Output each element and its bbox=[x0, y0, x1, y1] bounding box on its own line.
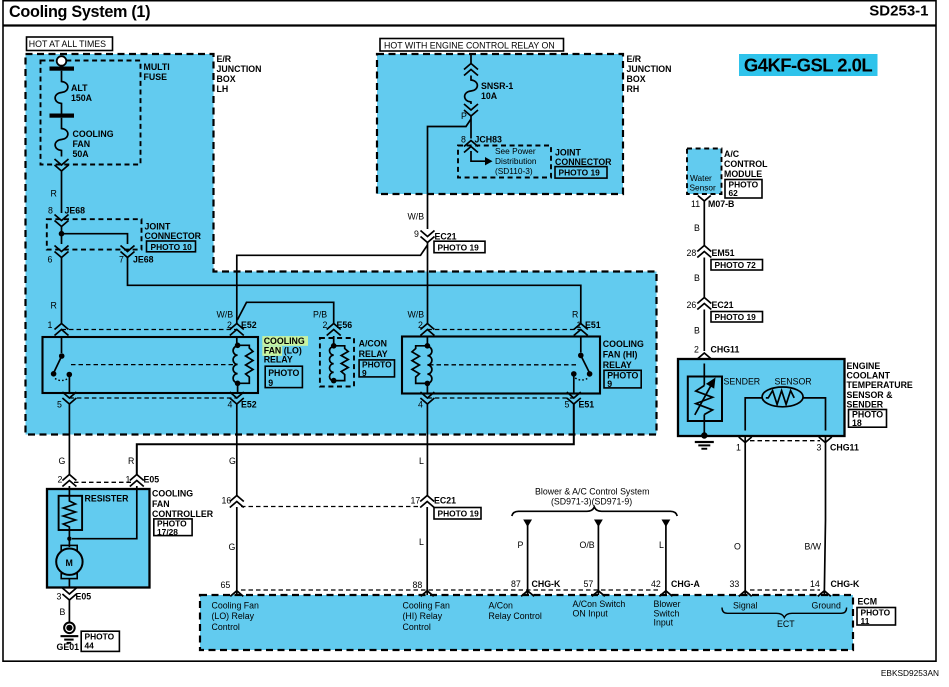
connector row dashed 33-14 bbox=[750, 589, 820, 591]
svg-text:COOLING: COOLING bbox=[73, 129, 114, 139]
svg-text:R: R bbox=[51, 189, 57, 199]
svg-text:BOX: BOX bbox=[627, 74, 646, 84]
LO relay armature link dashed bbox=[71, 364, 236, 366]
svg-text:11: 11 bbox=[861, 616, 870, 626]
svg-text:Relay Control: Relay Control bbox=[489, 611, 542, 621]
svg-text:(SD971-3)(SD971-9): (SD971-3)(SD971-9) bbox=[551, 497, 632, 507]
svg-text:8: 8 bbox=[461, 135, 466, 145]
svg-text:PHOTO 19: PHOTO 19 bbox=[438, 509, 480, 519]
svg-text:Cooling Fan: Cooling Fan bbox=[212, 601, 260, 611]
svg-text:33: 33 bbox=[730, 579, 740, 589]
wire B bbox=[703, 258, 705, 298]
svg-text:(HI) Relay: (HI) Relay bbox=[403, 611, 443, 621]
LO relay coil bbox=[233, 336, 240, 394]
svg-text:JCH83: JCH83 bbox=[475, 135, 502, 145]
wire P/B branch to A/CON relay bbox=[237, 302, 333, 324]
pin 2 E05 bbox=[62, 475, 76, 487]
svg-text:G: G bbox=[229, 542, 236, 552]
svg-text:5: 5 bbox=[565, 400, 570, 410]
svg-text:PHOTO 19: PHOTO 19 bbox=[715, 312, 757, 322]
svg-text:W/B: W/B bbox=[408, 212, 425, 222]
svg-text:G4KF-GSL 2.0L: G4KF-GSL 2.0L bbox=[744, 55, 872, 76]
svg-text:RESISTER: RESISTER bbox=[85, 494, 130, 504]
svg-text:L: L bbox=[659, 540, 664, 550]
svg-text:B: B bbox=[694, 326, 700, 336]
pin 7 JE68 bbox=[121, 246, 135, 258]
motor M bbox=[56, 536, 82, 588]
svg-text:ECT: ECT bbox=[777, 619, 795, 629]
svg-text:CHG11: CHG11 bbox=[711, 345, 740, 355]
svg-text:Cooling System (1): Cooling System (1) bbox=[9, 3, 150, 21]
wire W/B from P junction down to EC21 pin 9 bbox=[428, 119, 472, 229]
svg-text:SNSR-1: SNSR-1 bbox=[481, 81, 513, 91]
svg-text:EBKSD9253AN: EBKSD9253AN bbox=[881, 668, 939, 678]
LO relay resistor bbox=[238, 345, 253, 383]
svg-text:B: B bbox=[60, 607, 66, 617]
svg-text:FUSE: FUSE bbox=[144, 72, 168, 82]
svg-text:A/CON: A/CON bbox=[359, 339, 387, 349]
E/R junction box LH + relay region (blue dashed) bbox=[26, 54, 657, 435]
svg-text:EC21: EC21 bbox=[435, 232, 457, 242]
wire W/B down to HI relay coil pin 2 bbox=[427, 242, 429, 324]
svg-text:16: 16 bbox=[222, 496, 232, 506]
svg-text:P: P bbox=[461, 111, 467, 121]
wire W/B branch to LO relay coil pin 2 bbox=[237, 245, 428, 324]
connector row E52 top dashed bbox=[62, 329, 237, 331]
svg-text:JE68: JE68 bbox=[65, 206, 86, 216]
wire P to pin 87 bbox=[523, 520, 532, 528]
svg-text:(SD110-3): (SD110-3) bbox=[495, 166, 533, 176]
svg-text:COOLING: COOLING bbox=[603, 339, 644, 349]
svg-text:28: 28 bbox=[687, 248, 697, 258]
svg-text:L: L bbox=[419, 456, 424, 466]
Blower & A/C control system callout bbox=[512, 487, 677, 517]
svg-text:E05: E05 bbox=[76, 592, 92, 602]
svg-text:CHG-K: CHG-K bbox=[831, 579, 860, 589]
svg-text:E/R: E/R bbox=[627, 54, 642, 64]
wire R from HI relay pin 5 to controller pin 1 bbox=[137, 404, 574, 475]
svg-text:2: 2 bbox=[58, 475, 63, 485]
svg-text:P: P bbox=[518, 540, 524, 550]
pin 1 CHG11 bbox=[739, 437, 752, 443]
A/CON relay coil bbox=[330, 336, 337, 383]
svg-text:5: 5 bbox=[57, 400, 62, 410]
pin 14 CHG-K bbox=[818, 591, 831, 597]
pin 2 CHG11 bbox=[697, 353, 711, 365]
svg-text:E52: E52 bbox=[241, 400, 257, 410]
pin 5 E51 bbox=[567, 392, 581, 404]
svg-text:44: 44 bbox=[85, 640, 95, 650]
svg-text:Cooling Fan: Cooling Fan bbox=[403, 601, 451, 611]
label A/CON RELAY bbox=[359, 339, 395, 379]
svg-text:150A: 150A bbox=[71, 93, 93, 103]
wire G from LO relay pin 4 to pin 16 bbox=[236, 404, 238, 497]
svg-text:CONTROLLER: CONTROLLER bbox=[152, 509, 214, 519]
svg-text:PHOTO 72: PHOTO 72 bbox=[715, 260, 757, 270]
svg-text:14: 14 bbox=[810, 579, 820, 589]
svg-text:E/R: E/R bbox=[217, 54, 232, 64]
E/R junction box RH (blue dashed) bbox=[377, 54, 623, 194]
svg-text:CHG-A: CHG-A bbox=[671, 579, 700, 589]
svg-text:Signal: Signal bbox=[733, 601, 757, 611]
pin 6 JE68 bbox=[55, 246, 69, 258]
svg-text:RELAY: RELAY bbox=[264, 354, 293, 364]
svg-text:TEMPERATURE: TEMPERATURE bbox=[847, 380, 913, 390]
svg-text:COOLANT: COOLANT bbox=[847, 371, 891, 381]
wire R down to JE68 bbox=[61, 171, 63, 214]
pin 17 EC21 bbox=[420, 496, 434, 508]
svg-text:EC21: EC21 bbox=[434, 496, 456, 506]
svg-text:W/B: W/B bbox=[217, 310, 234, 320]
fuse bar top bbox=[50, 67, 75, 71]
connector row E51 top dashed bbox=[427, 329, 580, 331]
connector row E51 bottom dashed bbox=[427, 397, 573, 399]
A/CON relay resistor bbox=[334, 346, 349, 381]
svg-text:HOT AT ALL TIMES: HOT AT ALL TIMES bbox=[29, 39, 106, 49]
svg-text:ECM: ECM bbox=[858, 597, 878, 607]
joint connector JCH83 box bbox=[458, 146, 612, 179]
label ENGINE COOLANT TEMPERATURE SENSOR and SENDER bbox=[847, 361, 913, 428]
wire from pin 1 into controller bbox=[72, 486, 137, 539]
svg-text:B: B bbox=[694, 223, 700, 233]
label HOT AT ALL TIMES bbox=[27, 37, 113, 51]
svg-text:Distribution: Distribution bbox=[495, 156, 537, 166]
wire B to ground bbox=[68, 600, 70, 623]
svg-text:RELAY: RELAY bbox=[359, 349, 388, 359]
wire G from LO relay pin 5 to controller pin 2 bbox=[68, 404, 70, 475]
svg-text:26: 26 bbox=[687, 300, 697, 310]
wire R from pin 6 to LO relay pin 1 bbox=[61, 257, 63, 324]
svg-text:11: 11 bbox=[691, 199, 700, 209]
HI relay switch bbox=[571, 336, 592, 394]
svg-text:PHOTO 10: PHOTO 10 bbox=[151, 242, 193, 252]
svg-text:9: 9 bbox=[362, 368, 367, 378]
svg-text:Water: Water bbox=[690, 173, 712, 183]
HI relay armature link dashed bbox=[429, 364, 579, 366]
svg-text:COOLING: COOLING bbox=[152, 489, 193, 499]
svg-text:Sensor: Sensor bbox=[690, 183, 717, 193]
connector row dashed 65-42 bbox=[241, 589, 661, 591]
svg-text:6: 6 bbox=[48, 255, 53, 265]
pin 1 E05 bbox=[130, 475, 144, 487]
svg-text:Control: Control bbox=[212, 622, 240, 632]
svg-text:LH: LH bbox=[217, 84, 229, 94]
svg-text:E05: E05 bbox=[144, 475, 160, 485]
svg-text:PHOTO: PHOTO bbox=[268, 368, 299, 378]
svg-text:JOINT: JOINT bbox=[145, 221, 172, 231]
svg-text:2: 2 bbox=[694, 345, 699, 355]
svg-text:JUNCTION: JUNCTION bbox=[217, 64, 262, 74]
svg-text:MODULE: MODULE bbox=[724, 169, 762, 179]
svg-text:SENSOR &: SENSOR & bbox=[847, 390, 894, 400]
svg-text:EC21: EC21 bbox=[712, 300, 734, 310]
pin 3 E05 bbox=[62, 588, 76, 600]
cooling fan HI relay box bbox=[402, 337, 600, 394]
connector row E05 dashed bbox=[74, 481, 132, 483]
svg-text:3: 3 bbox=[57, 592, 62, 602]
resister zigzag bbox=[63, 486, 75, 536]
joint connector JE68 box bbox=[47, 219, 202, 252]
wire O to pin 33 bbox=[744, 436, 746, 596]
svg-text:57: 57 bbox=[584, 579, 594, 589]
wire R from pin 7 to HI relay pin 1 bbox=[128, 257, 581, 324]
svg-text:4: 4 bbox=[228, 400, 233, 410]
svg-text:FAN: FAN bbox=[152, 499, 170, 509]
pin 4 E52 bbox=[230, 392, 244, 404]
svg-text:62: 62 bbox=[729, 188, 739, 198]
node junction dot bbox=[59, 231, 65, 237]
svg-text:R: R bbox=[51, 301, 57, 311]
svg-text:R: R bbox=[128, 456, 134, 466]
svg-text:RELAY: RELAY bbox=[603, 360, 632, 370]
svg-text:ENGINE: ENGINE bbox=[847, 361, 881, 371]
sensor (thermistor) bbox=[745, 377, 825, 431]
svg-text:JE68: JE68 bbox=[133, 255, 154, 265]
multi fuse box bbox=[41, 61, 170, 165]
svg-text:COOLING: COOLING bbox=[264, 336, 305, 346]
pin 28 EM51 bbox=[697, 246, 711, 258]
svg-text:7: 7 bbox=[119, 255, 124, 265]
svg-text:Input: Input bbox=[654, 618, 674, 628]
svg-text:18: 18 bbox=[852, 418, 862, 428]
wire bbox=[61, 65, 63, 67]
svg-text:G: G bbox=[229, 456, 236, 466]
pin 42 CHG-A bbox=[659, 591, 672, 597]
svg-text:R: R bbox=[572, 310, 578, 320]
cooling fan controller box bbox=[47, 489, 150, 588]
svg-text:HOT WITH ENGINE CONTROL RELAY: HOT WITH ENGINE CONTROL RELAY ON bbox=[384, 41, 555, 51]
pin 87 CHG-K bbox=[521, 591, 534, 597]
connector row 16-17 dashed bbox=[241, 506, 421, 508]
svg-text:JOINT: JOINT bbox=[555, 148, 582, 158]
svg-text:L: L bbox=[419, 537, 424, 547]
label HOT WITH ENGINE CONTROL RELAY ON bbox=[380, 39, 564, 52]
svg-text:SENSOR: SENSOR bbox=[775, 377, 812, 387]
svg-text:9: 9 bbox=[414, 229, 419, 239]
pin 65 bbox=[230, 591, 243, 597]
svg-text:O/B: O/B bbox=[580, 540, 595, 550]
svg-text:42: 42 bbox=[651, 579, 661, 589]
wire O/B to pin 57 bbox=[594, 520, 603, 528]
svg-text:CONNECTOR: CONNECTOR bbox=[145, 231, 202, 241]
resister rect bbox=[59, 496, 83, 530]
fusible link COOLING FAN 50A bbox=[55, 118, 68, 157]
svg-text:Control: Control bbox=[403, 622, 431, 632]
svg-text:Blower & A/C Control System: Blower & A/C Control System bbox=[535, 487, 649, 497]
wire L pin17 to pin 88 bbox=[426, 507, 428, 595]
svg-text:ON Input: ON Input bbox=[573, 608, 609, 618]
svg-text:17: 17 bbox=[411, 496, 421, 506]
svg-text:FAN (HI): FAN (HI) bbox=[603, 350, 638, 360]
svg-text:CHG-K: CHG-K bbox=[532, 579, 561, 589]
G4KF-GSL 2.0L label bbox=[739, 54, 878, 76]
label COOLING FAN (LO) RELAY bbox=[262, 336, 308, 388]
svg-text:P/B: P/B bbox=[313, 310, 327, 320]
connector leaving multi fuse bbox=[55, 159, 69, 171]
cooling fan LO relay box bbox=[43, 337, 259, 393]
svg-text:SENDER: SENDER bbox=[847, 399, 884, 409]
wire L from HI relay pin 4 to pin 17 bbox=[426, 404, 428, 497]
svg-text:SENDER: SENDER bbox=[724, 377, 761, 387]
svg-text:FAN: FAN bbox=[73, 139, 91, 149]
engine coolant temperature sensor and sender box bbox=[678, 359, 845, 436]
fusible link ALT 150A bbox=[55, 71, 68, 114]
svg-text:JUNCTION: JUNCTION bbox=[627, 64, 672, 74]
pin 16 bbox=[230, 496, 244, 508]
wire B down bbox=[703, 201, 705, 246]
svg-text:GE01: GE01 bbox=[57, 642, 80, 652]
svg-text:50A: 50A bbox=[73, 149, 90, 159]
pin 4 E51 bbox=[420, 392, 434, 404]
wire inside joint connector bbox=[62, 226, 128, 244]
pin 57 bbox=[592, 591, 605, 597]
svg-text:Ground: Ground bbox=[812, 601, 841, 611]
node circle (battery feed) bbox=[57, 56, 67, 66]
see power distribution arrow bbox=[471, 151, 485, 161]
svg-text:RH: RH bbox=[627, 84, 640, 94]
pin 11 M07-B bbox=[698, 196, 711, 202]
svg-text:B: B bbox=[694, 273, 700, 283]
A/C control module (water sensor) box bbox=[687, 149, 768, 199]
svg-text:1: 1 bbox=[48, 320, 53, 330]
svg-text:8: 8 bbox=[48, 206, 53, 216]
svg-text:G: G bbox=[59, 456, 66, 466]
pin 5 E52 bbox=[62, 392, 76, 404]
SNSR-1 fuse column bbox=[461, 55, 513, 139]
connector row 1-3 dashed bbox=[750, 440, 820, 442]
svg-text:See Power: See Power bbox=[495, 146, 536, 156]
svg-text:MULTI: MULTI bbox=[144, 62, 170, 72]
pin 26 EC21 bbox=[697, 298, 711, 310]
pin 3 CHG11 bbox=[819, 437, 832, 443]
HI relay resistor bbox=[412, 346, 427, 384]
svg-text:SD253-1: SD253-1 bbox=[869, 2, 928, 19]
sender (variable resistor) bbox=[688, 364, 760, 434]
label COOLING FAN CONTROLLER bbox=[152, 489, 214, 537]
svg-text:3: 3 bbox=[817, 443, 822, 453]
pin 88 bbox=[421, 591, 434, 597]
svg-text:A/C: A/C bbox=[724, 149, 740, 159]
svg-text:(LO) Relay: (LO) Relay bbox=[212, 611, 255, 621]
sender ground bbox=[695, 432, 714, 449]
svg-text:E51: E51 bbox=[579, 400, 595, 410]
wire B bbox=[703, 310, 705, 352]
HI relay coil bbox=[425, 336, 432, 394]
connector row E52 bottom dashed bbox=[69, 397, 236, 399]
wire G pin16 to pin 65 bbox=[236, 507, 238, 595]
svg-text:10A: 10A bbox=[481, 91, 498, 101]
bottom box labels bbox=[212, 601, 260, 632]
svg-text:17/28: 17/28 bbox=[157, 527, 178, 537]
svg-text:9: 9 bbox=[268, 378, 273, 388]
svg-text:CHG11: CHG11 bbox=[830, 443, 859, 453]
svg-text:M: M bbox=[66, 558, 73, 568]
svg-text:87: 87 bbox=[511, 579, 521, 589]
svg-text:1: 1 bbox=[736, 443, 741, 453]
svg-text:O: O bbox=[734, 542, 741, 552]
fuse bar bottom bbox=[50, 114, 75, 118]
svg-text:BOX: BOX bbox=[217, 74, 236, 84]
ground GE01 bbox=[57, 623, 120, 653]
svg-text:ALT: ALT bbox=[71, 83, 88, 93]
pin 33 bbox=[739, 591, 752, 597]
svg-text:9: 9 bbox=[607, 379, 612, 389]
ECM / bottom control box (blue dashed) bbox=[200, 595, 853, 650]
wire L to pin 42 bbox=[662, 520, 671, 528]
svg-text:B/W: B/W bbox=[805, 542, 822, 552]
wire B/W to pin 14 bbox=[824, 436, 825, 596]
svg-text:PHOTO 19: PHOTO 19 bbox=[438, 242, 480, 252]
A/CON relay box bbox=[320, 338, 354, 387]
svg-text:CONNECTOR: CONNECTOR bbox=[555, 157, 612, 167]
LO relay switch bbox=[51, 336, 72, 394]
svg-text:W/B: W/B bbox=[408, 310, 425, 320]
svg-text:1: 1 bbox=[126, 475, 131, 485]
svg-text:4: 4 bbox=[418, 400, 423, 410]
svg-text:EM51: EM51 bbox=[712, 248, 735, 258]
svg-text:88: 88 bbox=[413, 580, 423, 590]
svg-text:PHOTO 19: PHOTO 19 bbox=[559, 167, 601, 177]
svg-text:CONTROL: CONTROL bbox=[724, 159, 768, 169]
svg-text:65: 65 bbox=[221, 580, 231, 590]
ECT brace bbox=[722, 608, 847, 618]
svg-text:M07-B: M07-B bbox=[708, 199, 734, 209]
label COOLING FAN (HI) RELAY bbox=[603, 339, 644, 389]
svg-text:A/Con: A/Con bbox=[489, 601, 514, 611]
junction dot bbox=[67, 537, 71, 541]
